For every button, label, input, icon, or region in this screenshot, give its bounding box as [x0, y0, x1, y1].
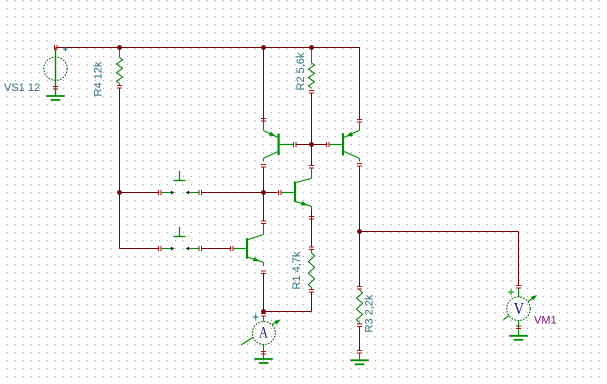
svg-text:VM1: VM1 [534, 315, 557, 327]
svg-text:V: V [514, 300, 525, 318]
svg-text:R2 5,6k: R2 5,6k [295, 52, 307, 90]
svg-text:R3 2,2k: R3 2,2k [363, 294, 375, 332]
svg-text:VS1 12: VS1 12 [4, 82, 40, 94]
svg-text:R1 4,7k: R1 4,7k [291, 251, 303, 289]
svg-text:R4 12k: R4 12k [92, 61, 104, 96]
svg-text:A: A [259, 324, 269, 342]
